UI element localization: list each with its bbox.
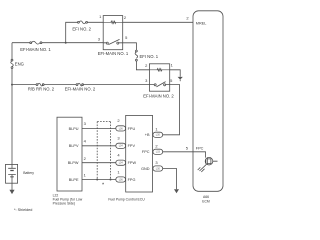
fuse EFI NO. 2 xyxy=(78,21,88,24)
connector oval GND xyxy=(153,166,163,171)
wire battery feed vertical xyxy=(11,43,13,165)
wire R2 pin5 to +B xyxy=(163,85,180,135)
label BLPU xyxy=(69,127,79,131)
svg-text:3: 3 xyxy=(117,136,120,141)
svg-text:Fuel Pump Control ECU: Fuel Pump Control ECU xyxy=(108,198,145,202)
svg-text:2: 2 xyxy=(145,63,148,68)
ground arrow battery xyxy=(9,190,14,194)
label FPC ECM xyxy=(196,147,204,151)
svg-text:EFI-MAIN NO. 2: EFI-MAIN NO. 2 xyxy=(143,94,174,99)
svg-text:BLPW: BLPW xyxy=(68,161,79,165)
oval codes right xyxy=(156,134,161,171)
label FPC xyxy=(142,150,150,154)
relay R2 switch xyxy=(149,82,169,87)
svg-text:*: Shielded: *: Shielded xyxy=(14,208,32,212)
pin 1 R1 xyxy=(99,14,102,19)
label ENG xyxy=(15,61,24,66)
relay EFI-MAIN NO. 2 box xyxy=(149,64,169,91)
shield dashed box xyxy=(97,122,110,180)
svg-text:4: 4 xyxy=(117,153,120,158)
svg-text:3: 3 xyxy=(98,37,101,42)
wire R1 pin5 to fuse EFI NO.1 xyxy=(123,43,137,50)
connector oval FPU xyxy=(116,126,126,131)
svg-text:GND: GND xyxy=(141,167,150,171)
svg-text:1: 1 xyxy=(171,63,174,68)
svg-text:FPG: FPG xyxy=(128,178,136,182)
svg-text:ENG: ENG xyxy=(15,61,24,66)
pin 1 R2 xyxy=(171,63,174,68)
svg-text:L33: L33 xyxy=(156,151,161,154)
fuse ENG xyxy=(11,59,14,68)
label fuse EFI NO. 1 xyxy=(140,54,159,59)
battery xyxy=(6,164,18,183)
wire BLPV xyxy=(82,145,116,147)
svg-text:3: 3 xyxy=(145,78,148,83)
pin 2 FPC xyxy=(155,143,158,148)
oval codes left xyxy=(119,127,124,181)
svg-text:L34: L34 xyxy=(119,162,124,165)
pin 3 R1 xyxy=(98,37,101,42)
pin 5 R2 xyxy=(170,78,173,83)
wire GND to ground xyxy=(163,169,177,190)
svg-text:Battery: Battery xyxy=(23,171,34,175)
svg-text:4: 4 xyxy=(84,138,87,143)
pin 2 pump xyxy=(84,156,87,161)
wire FPC internal xyxy=(193,152,206,158)
pin 1 pump xyxy=(84,173,87,178)
label GND xyxy=(141,167,150,171)
caption A66 ECM xyxy=(202,195,210,203)
fuse R/B RR NO. 2 xyxy=(36,83,44,86)
wire battery to ground xyxy=(11,183,13,190)
svg-text:L34: L34 xyxy=(119,145,124,148)
pin 2 ECM MREL xyxy=(186,16,189,21)
ground internal ECM xyxy=(198,164,207,172)
svg-text:FPC: FPC xyxy=(196,147,204,151)
label Battery xyxy=(23,171,34,175)
label FPW xyxy=(128,161,137,165)
svg-text:R/B RR NO. 2: R/B RR NO. 2 xyxy=(28,87,55,92)
note shielded xyxy=(14,208,32,212)
svg-text:FPW: FPW xyxy=(128,161,137,165)
svg-text:BLPV: BLPV xyxy=(69,144,79,148)
label relay EFI-MAIN NO. 1 xyxy=(98,51,129,56)
label relay EFI-MAIN NO. 2 xyxy=(143,94,174,99)
svg-text:2: 2 xyxy=(117,118,120,123)
svg-text:BLPU: BLPU xyxy=(69,127,79,131)
svg-text:L30: L30 xyxy=(156,167,161,170)
node junction riser xyxy=(65,42,67,44)
pin 3 R2 xyxy=(145,78,148,83)
ECM box xyxy=(193,11,223,192)
wire riser to EFI NO.2 branch xyxy=(66,22,104,42)
connector oval FPW xyxy=(116,160,126,165)
connector oval FPV xyxy=(116,143,126,148)
wire low line to R2 pin3 xyxy=(12,84,149,86)
svg-text:1: 1 xyxy=(117,169,120,174)
pin 3 fpv xyxy=(117,136,120,141)
pin 1 +B xyxy=(155,126,158,131)
label BLPW xyxy=(68,161,79,165)
svg-text:A66: A66 xyxy=(203,195,209,199)
node shield right xyxy=(110,179,112,181)
svg-text:2: 2 xyxy=(84,156,87,161)
svg-text:+B: +B xyxy=(145,133,150,137)
pin 4 pump xyxy=(84,138,87,143)
fuse EFI-MAIN NO. 2 xyxy=(76,83,83,86)
svg-text:1: 1 xyxy=(155,126,158,131)
svg-text:FPC: FPC xyxy=(142,150,150,154)
label fuse EFI-MAIN NO. 1 xyxy=(20,47,51,52)
relay R1 switch xyxy=(103,39,123,44)
svg-text:5: 5 xyxy=(125,35,128,40)
pin 3 pump xyxy=(84,121,87,126)
svg-text:EFI NO. 1: EFI NO. 1 xyxy=(140,54,159,59)
relay R1 coil xyxy=(103,21,123,23)
fuse EFI NO. 1 xyxy=(135,50,138,61)
transistor Q1 xyxy=(205,157,217,165)
pin 1 fpg xyxy=(117,169,120,174)
wire fuse EFI NO.1 to R2 pin2 xyxy=(136,61,149,70)
fuel pump box L22 xyxy=(57,117,82,191)
label FPU xyxy=(128,127,136,131)
pin 2 R2 xyxy=(145,63,148,68)
label FPG xyxy=(128,178,136,182)
ground arrow GND xyxy=(174,189,179,193)
label MREL xyxy=(196,22,207,26)
svg-text:EFI-MAIN NO. 1: EFI-MAIN NO. 1 xyxy=(20,47,51,52)
svg-text:5: 5 xyxy=(170,78,173,83)
fuel pump control ECU box xyxy=(126,115,153,192)
node shield left xyxy=(96,179,98,181)
svg-text:L30: L30 xyxy=(156,134,161,137)
pin 4 fpw xyxy=(117,153,120,158)
wire BLPU xyxy=(82,127,116,129)
svg-text:5: 5 xyxy=(186,146,189,151)
label shield star xyxy=(102,182,105,188)
label +B xyxy=(145,133,150,137)
label BLPV xyxy=(69,144,79,148)
fuse EFI-MAIN NO. 1 xyxy=(30,41,42,44)
wire R2 pin1 to ground xyxy=(170,70,181,77)
svg-text:EFI NO. 2: EFI NO. 2 xyxy=(72,27,91,32)
wire BLPW xyxy=(82,162,116,164)
svg-text:BLPE: BLPE xyxy=(69,178,79,182)
label fuse EFI NO. 2 xyxy=(72,27,91,32)
wire main horizontal B+ xyxy=(12,42,103,44)
svg-text:L36: L36 xyxy=(119,127,124,130)
connector oval FPC xyxy=(153,149,163,154)
svg-text:EFI-MAIN NO. 1: EFI-MAIN NO. 1 xyxy=(98,51,129,56)
relay R2 coil xyxy=(149,69,169,71)
svg-text:2: 2 xyxy=(124,15,127,20)
caption Fuel Pump Control ECU xyxy=(108,198,145,202)
pin 2 R1 xyxy=(124,15,127,20)
ground arrow R2 xyxy=(178,77,183,81)
svg-text:*: * xyxy=(102,182,105,188)
svg-text:2: 2 xyxy=(155,143,158,148)
label fuse EFI-MAIN NO. 2 xyxy=(65,87,96,92)
svg-text:L36: L36 xyxy=(119,178,124,181)
node junction battery line xyxy=(11,84,13,86)
svg-text:Pressure Side): Pressure Side) xyxy=(53,202,75,206)
relay EFI-MAIN NO. 1 box xyxy=(103,16,123,50)
svg-text:ECM: ECM xyxy=(202,200,210,204)
svg-text:1: 1 xyxy=(99,14,102,19)
connector oval FPG xyxy=(116,177,126,182)
svg-text:FPU: FPU xyxy=(128,127,136,131)
wire R1 pin2 to ECM MREL xyxy=(123,21,193,23)
label fuse R/B RR NO. 2 xyxy=(28,87,55,92)
svg-text:EFI-MAIN NO. 2: EFI-MAIN NO. 2 xyxy=(65,87,96,92)
svg-text:MREL: MREL xyxy=(196,22,207,26)
pin 3 GND xyxy=(155,160,158,165)
svg-text:1: 1 xyxy=(84,173,87,178)
wire FPC to ECM xyxy=(163,151,193,153)
label BLPE xyxy=(69,178,79,182)
svg-text:FPV: FPV xyxy=(128,144,136,148)
svg-text:2: 2 xyxy=(186,16,189,21)
svg-text:3: 3 xyxy=(155,160,158,165)
wire BLPE xyxy=(82,179,116,181)
svg-text:3: 3 xyxy=(84,121,87,126)
connector oval +B xyxy=(153,132,163,137)
caption L22 Fuel Pump xyxy=(53,194,83,206)
pin 5 ECM FPC xyxy=(186,146,189,151)
label FPV xyxy=(128,144,136,148)
pin 5 R1 xyxy=(125,35,128,40)
pin 2 fpu xyxy=(117,118,120,123)
